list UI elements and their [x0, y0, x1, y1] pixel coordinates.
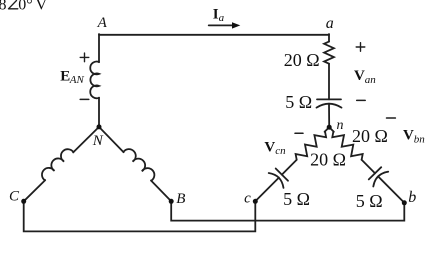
wire b-branch capacitor to b	[378, 176, 404, 202]
wire n to b-branch resistor	[329, 127, 334, 132]
minus of V_bn	[387, 117, 396, 119]
node n junction dot	[327, 125, 332, 130]
svg-text:V: V	[354, 68, 365, 84]
node B junction dot	[169, 199, 174, 204]
resistor 20ohm a-branch	[324, 42, 334, 64]
minus of V_cn	[295, 132, 303, 134]
node N junction dot	[97, 124, 102, 129]
svg-text:0°: 0°	[18, 0, 32, 14]
wire n to c-branch resistor	[325, 127, 330, 132]
svg-text:8: 8	[0, 0, 7, 14]
svg-text:V: V	[36, 0, 48, 13]
svg-text:an: an	[365, 74, 377, 86]
phase coil N-C	[42, 149, 73, 180]
svg-text:a: a	[219, 12, 225, 24]
svg-text:n: n	[337, 118, 344, 133]
svg-text:V: V	[264, 140, 275, 156]
svg-text:20 Ω: 20 Ω	[284, 50, 320, 70]
capacitor 5ohm b-branch arc	[373, 172, 388, 187]
wire coil to N	[98, 98, 100, 127]
phase coil N-B	[123, 149, 154, 181]
capacitor 5ohm b-branch plate	[369, 167, 381, 179]
svg-text:C: C	[9, 189, 20, 205]
source coil E_AN	[90, 62, 99, 99]
wire b-branch resistor to capacitor	[362, 160, 375, 174]
node b junction dot	[402, 200, 407, 205]
svg-text:c: c	[244, 191, 251, 207]
capacitor 5ohm c-branch arc	[269, 173, 284, 188]
wire top A to a	[99, 34, 329, 36]
wire capacitor to n	[328, 104, 330, 128]
wire left coil to C	[24, 180, 46, 201]
svg-text:AN: AN	[69, 74, 85, 86]
svg-text:cn: cn	[275, 145, 286, 157]
svg-text:5 Ω: 5 Ω	[285, 92, 312, 112]
svg-text:B: B	[176, 191, 185, 207]
wire a down to resistor	[328, 34, 330, 42]
wire A down to source coil	[98, 34, 100, 62]
wire N to right coil	[99, 127, 124, 152]
wire c-branch resistor to capacitor	[282, 160, 297, 175]
svg-text:b: b	[408, 189, 416, 206]
svg-text:V: V	[403, 127, 414, 143]
minus of V_an	[357, 99, 366, 101]
capacitor 5ohm c-branch plate	[276, 169, 288, 181]
svg-text:5 Ω: 5 Ω	[356, 191, 383, 211]
current arrow I_a	[209, 24, 234, 26]
wire c-branch capacitor to c	[255, 178, 279, 202]
wire C to c (bottom bus)	[24, 201, 256, 231]
svg-text:5 Ω: 5 Ω	[283, 189, 310, 209]
plus of V_an	[356, 43, 365, 52]
svg-text:a: a	[326, 15, 334, 32]
resistor 20ohm b-branch	[332, 132, 362, 160]
wire N to left coil	[73, 127, 99, 152]
minus of E_AN	[80, 98, 89, 100]
svg-text:20 Ω: 20 Ω	[352, 126, 388, 146]
wire B to b (bottom bus)	[171, 201, 404, 220]
plus of E_AN	[80, 53, 89, 62]
svg-text:N: N	[92, 133, 104, 149]
wire resistor to capacitor	[328, 64, 330, 100]
wire right coil to B	[151, 181, 171, 202]
resistor 20ohm c-branch	[296, 131, 327, 159]
svg-text:A: A	[97, 15, 108, 31]
capacitor 5ohm a-branch arc	[317, 104, 342, 108]
svg-text:bn: bn	[414, 133, 426, 145]
node C junction dot	[21, 199, 26, 204]
svg-text:20 Ω: 20 Ω	[310, 150, 346, 170]
capacitor 5ohm a-branch plate	[317, 98, 341, 100]
node c junction dot	[253, 199, 258, 204]
